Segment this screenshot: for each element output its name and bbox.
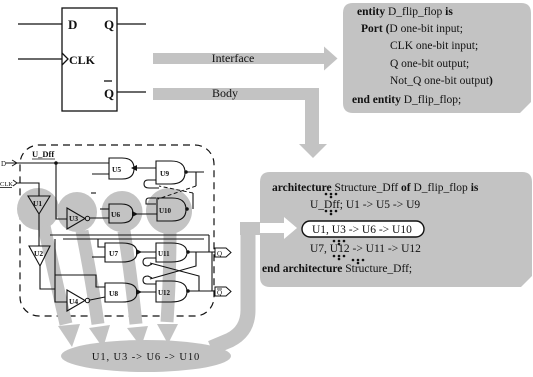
wire CLK input [18,58,62,60]
balloon highlight over U3 [57,192,110,348]
svg-text:Q: Q [217,289,222,297]
wire U3 to U6 [90,217,109,219]
entity text box [343,3,531,113]
wire Q output [117,23,146,25]
gate U11 [156,243,187,262]
svg-text:U_Dff: U_Dff [32,149,54,159]
svg-text:U10: U10 [159,207,172,215]
wire U9 cross to U10 [195,172,197,186]
wire tap to U7 input 1 [98,239,105,247]
wire branch to U8 input [55,275,105,287]
balloon highlight over U1 [17,188,80,347]
wire U11 cross to U12 [150,252,196,279]
svg-text:U4: U4 [69,297,78,306]
inverter U1 [28,196,50,214]
wire U7 to U11 [137,251,156,253]
architecture text box [260,172,532,287]
svg-text:U12: U12 [158,289,171,297]
svg-text:U1, U3 -> U6 -> U10: U1, U3 -> U6 -> U10 [312,224,412,236]
feedback wire right [208,235,210,252]
svg-text:D: D [1,160,6,168]
dashed boundary U_Dff [20,145,214,316]
wire stub U6 first input [100,208,109,210]
wire vertical to U4 [55,239,67,302]
svg-text:Not_Q one-bit output): Not_Q one-bit output) [390,75,493,87]
port Q flag [215,248,231,257]
balloon highlight over U6 [102,191,149,347]
feedback wire Q to lower [211,252,213,291]
buffer U4 [67,290,85,311]
svg-text:Q: Q [104,17,114,32]
gate U10 [157,198,186,221]
wire U11 to Q [188,251,215,253]
wire U10 cross to U9 [192,193,194,209]
svg-text:U8: U8 [109,289,118,298]
wire hook into U9 lower input [144,180,159,188]
svg-text:U9: U9 [160,169,169,178]
gray arm from result ellipse up to architecture box [211,232,248,348]
svg-text:D: D [68,17,77,32]
wire stub U7 input 2 [92,256,105,258]
wire U8 to U12 [137,291,156,293]
wire U9 output [186,171,204,173]
wire D down to U3 [56,163,67,219]
svg-text:U1, U3 -> U6 -> U10: U1, U3 -> U6 -> U10 [92,352,200,363]
svg-text:entity D_flip_flop is: entity D_flip_flop is [357,6,453,18]
gate U12 [156,281,187,302]
svg-text:CLK one-bit input;: CLK one-bit input; [390,40,478,52]
wire U1 to U2 [38,214,40,246]
node U9 output [184,170,188,174]
svg-text:U2: U2 [34,249,43,258]
svg-text:CLK: CLK [0,181,13,188]
wire tick [91,192,96,194]
wire stub U5 second input [92,173,109,175]
wire U12 to Q-bar [188,290,215,292]
long wire A [50,234,209,236]
svg-text:end architecture Structure_D: end architecture Structure_Dff; [262,263,412,275]
Body arrow (bent, points down at architecture box) [153,86,327,158]
inverter U2 [29,246,50,266]
white arrow pointing at highlighted oval [260,217,297,239]
node U11 output [186,250,190,254]
svg-text:Interface: Interface [212,51,255,65]
wire D to U5 [6,162,109,164]
result ellipse [61,340,231,372]
node U10 output [185,207,189,211]
D flip-flop symbol box [62,8,117,111]
svg-text:architecture Structure_Dff o: architecture Structure_Dff of D_flip_flo… [272,182,479,194]
node U12 output [186,289,190,293]
output arrow mark U5 [131,165,137,171]
wire U5 to U9 [134,167,156,169]
output arrow mark U8 [136,289,142,295]
gate U7 [105,243,137,262]
gate U8 [105,283,137,302]
wire hook into U10 upper input [146,198,156,204]
ellipsis dot marks in architecture box [325,193,365,265]
output arrow mark U7 [136,249,142,255]
svg-text:U_Dff; U1 -> U5 -> U9: U_Dff; U1 -> U5 -> U9 [310,199,420,211]
svg-text:U5: U5 [112,165,121,174]
node D junction [54,161,58,165]
svg-text:Q: Q [104,86,114,101]
gate U9 [156,161,185,184]
svg-text:U6: U6 [111,210,120,219]
wire U12 cross to U11 [150,263,199,291]
svg-text:U11: U11 [158,250,170,258]
gate U6 [109,204,133,223]
wire Q-bar output [117,91,146,93]
svg-text:U3: U3 [69,214,78,223]
svg-text:U7, U12 -> U11 -> U12: U7, U12 -> U11 -> U12 [310,243,421,255]
Interface arrow [153,47,338,71]
svg-text:CLK: CLK [69,53,96,67]
svg-text:Body: Body [212,86,238,100]
output arrow mark U6 [132,211,138,217]
svg-text:Q: Q [217,250,222,258]
buffer U3 [67,208,85,229]
wire hook into U11 input [143,258,156,266]
svg-text:U1: U1 [33,199,42,208]
clock wedge [62,53,68,65]
wire U6 to U10 [133,213,157,215]
svg-text:Port (D one-bit input;: Port (D one-bit input; [361,23,463,35]
svg-text:Q one-bit output;: Q one-bit output; [390,58,469,70]
long wire B [63,238,204,240]
port Q-bar flag [215,287,231,296]
svg-text:end entity D_flip_flop;: end entity D_flip_flop; [352,94,461,106]
gate U5 [109,158,134,179]
highlighted oval statement [302,221,424,237]
wire hook into U12 input [143,276,156,284]
balloon highlight over U10 [146,188,192,344]
wire U2 down [40,266,55,289]
wire CLK to U1 [17,183,39,196]
wire U4 to U8 [90,297,105,300]
wire D input [18,23,62,25]
svg-text:U7: U7 [109,249,118,258]
